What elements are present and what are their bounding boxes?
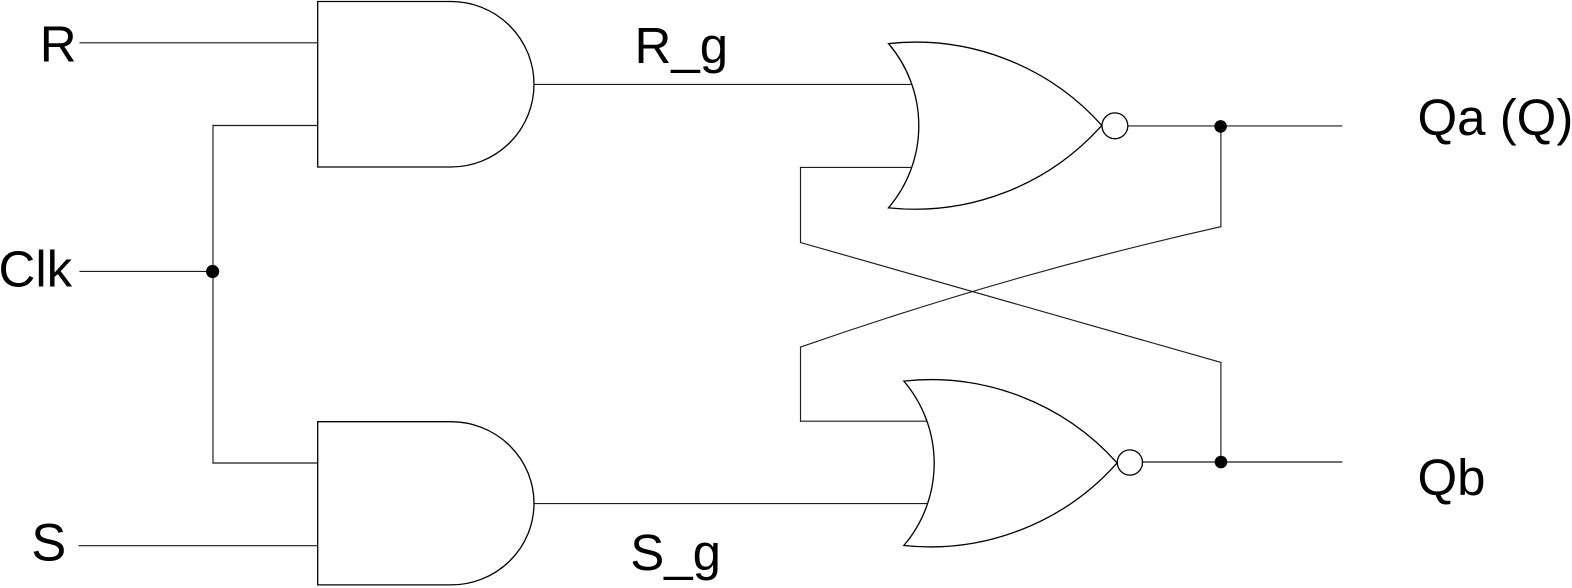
svg-text:R: R xyxy=(40,15,77,72)
svg-text:Qb: Qb xyxy=(1418,449,1486,506)
svg-text:R_g: R_g xyxy=(635,17,729,74)
svg-text:Clk: Clk xyxy=(0,241,73,298)
svg-text:S_g: S_g xyxy=(630,524,721,581)
svg-text:Qa (Q): Qa (Q) xyxy=(1418,89,1572,146)
svg-text:S: S xyxy=(31,514,66,573)
